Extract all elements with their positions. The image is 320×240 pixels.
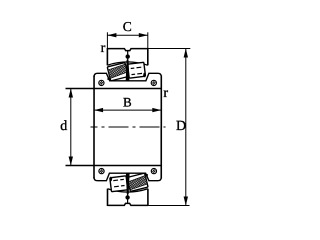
dark wedge under roller RL1 — [107, 76, 110, 80]
dark sliver right of roller RR1 — [143, 72, 146, 77]
bore line bottom (d extension) — [66, 165, 162, 167]
svg-text:D: D — [176, 119, 186, 134]
d dimension line — [70, 89, 72, 166]
bearing cross-section drawing — [0, 0, 260, 226]
svg-text:d: d — [60, 119, 67, 134]
inner ring I1 center guide flange (dark band) — [126, 60, 130, 81]
inner ring I1 right face — [160, 76, 162, 128]
B arrow right — [152, 108, 161, 112]
bore line top (d extension) — [66, 88, 162, 90]
C extension line left — [106, 32, 108, 48]
D extension line top — [148, 48, 191, 50]
D dimension line — [185, 49, 187, 206]
svg-text:B: B — [123, 95, 132, 110]
C arrow left — [107, 33, 116, 37]
outer ring O1 top surface with groove — [107, 49, 147, 51]
svg-text:r: r — [101, 41, 106, 56]
C arrow right — [139, 33, 148, 37]
outer ring O1 right side — [147, 48, 149, 65]
lubrication hole dot — [126, 54, 130, 58]
outer ring O1 left side — [106, 48, 108, 65]
cage section circle left — [99, 80, 104, 85]
roller RR1 (unsectioned, dashed) — [128, 62, 146, 78]
center axis line — [91, 126, 166, 128]
top bearing section group (rotated copy makes bottom section) — [94, 48, 161, 127]
inner ring I1 top profile — [94, 73, 161, 81]
svg-text:r: r — [163, 86, 168, 101]
lubrication hole line — [127, 51, 129, 62]
bottom bearing section (180 deg rotation of top) — [94, 127, 161, 206]
C extension line right — [147, 32, 149, 48]
C dimension line — [107, 34, 147, 36]
D arrow bottom — [184, 197, 188, 206]
d arrow top — [69, 89, 73, 98]
roller RL1 (sectioned, hatched) — [107, 63, 128, 81]
cage section circle right — [151, 80, 156, 85]
B dimension line — [94, 109, 161, 111]
B arrow left — [94, 108, 103, 112]
inner ring I1 left face — [93, 76, 95, 128]
d arrow bottom — [69, 157, 73, 166]
svg-text:C: C — [123, 19, 132, 34]
D extension line bottom — [148, 205, 190, 207]
D arrow top — [184, 49, 188, 58]
outer ring O1 spherical raceway arc — [107, 62, 147, 65]
